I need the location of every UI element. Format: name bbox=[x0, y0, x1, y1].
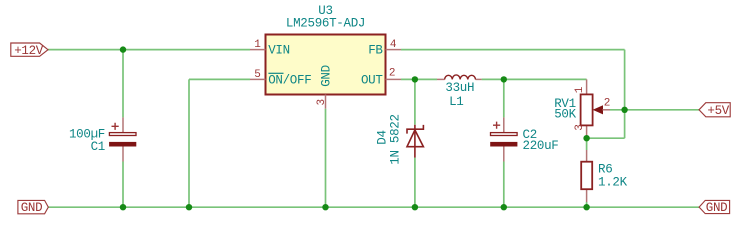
power flag GND left bbox=[18, 200, 48, 215]
svg-text:1: 1 bbox=[574, 86, 586, 93]
wire ON/OFF down to GND rail bbox=[188, 79, 190, 207]
wire GND rail bbox=[48, 206, 699, 208]
power flag +5V bbox=[699, 103, 730, 118]
wire R6 top bbox=[586, 138, 588, 150]
svg-text:5: 5 bbox=[254, 69, 261, 81]
svg-text:ON/OFF: ON/OFF bbox=[268, 73, 311, 87]
junction node D4/rail bbox=[412, 204, 418, 210]
U3 pin 1 VIN bbox=[250, 39, 290, 57]
U3 pin 4 FB bbox=[368, 39, 401, 57]
junction node C2/rail bbox=[501, 204, 507, 210]
capacitor C2 bbox=[490, 117, 558, 161]
wire FB horizontal bbox=[401, 49, 625, 51]
svg-text:2: 2 bbox=[389, 67, 396, 79]
capacitor C1 bbox=[69, 117, 136, 161]
svg-text:D4: D4 bbox=[376, 130, 390, 144]
junction node R6/rail bbox=[583, 204, 589, 210]
wire ON/OFF horizontal bbox=[189, 78, 250, 80]
svg-text:LM2596T-ADJ: LM2596T-ADJ bbox=[286, 17, 365, 31]
svg-text:+5V: +5V bbox=[707, 104, 729, 118]
svg-text:3: 3 bbox=[316, 99, 328, 106]
op-amp U3 LM2596T-ADJ body bbox=[266, 4, 386, 95]
power flag GND right bbox=[699, 200, 730, 215]
svg-text:33uH: 33uH bbox=[445, 81, 474, 95]
wire U3 GND pin to rail bbox=[325, 109, 327, 208]
svg-text:220uF: 220uF bbox=[523, 139, 559, 153]
svg-text:+12V: +12V bbox=[14, 44, 44, 58]
svg-text:C1: C1 bbox=[91, 140, 105, 154]
power flag +12V bbox=[11, 43, 48, 58]
wire C1 top branch bbox=[122, 50, 124, 118]
wire loop bottom to RV1 pin3 bbox=[587, 137, 625, 139]
wire C2 top bbox=[503, 79, 505, 117]
svg-text:L1: L1 bbox=[449, 95, 463, 109]
U3 pin 5 ON/OFF bbox=[250, 69, 311, 87]
svg-text:3: 3 bbox=[574, 124, 586, 131]
U3 pin 2 OUT bbox=[361, 67, 401, 87]
svg-text:2: 2 bbox=[604, 98, 611, 110]
junction node OUT/D4 bbox=[412, 76, 418, 82]
diode D4 1N5822 bbox=[376, 114, 424, 164]
inductor L1 bbox=[437, 75, 482, 109]
wire D4 top bbox=[414, 79, 416, 124]
svg-text:GND: GND bbox=[21, 201, 43, 215]
wire L1 to RV1 corner bbox=[482, 78, 587, 80]
svg-text:OUT: OUT bbox=[361, 73, 383, 87]
svg-text:FB: FB bbox=[368, 44, 383, 58]
wire C2 bottom to rail bbox=[503, 162, 505, 208]
wire +12V to U3 VIN bbox=[48, 49, 250, 51]
U3 pin 3 GND bbox=[316, 65, 334, 109]
svg-text:1: 1 bbox=[254, 39, 261, 51]
junction node +12V/C1 bbox=[120, 46, 126, 52]
resistor R6 bbox=[581, 150, 627, 202]
wire D4 bottom to rail bbox=[414, 158, 416, 208]
wire OUT to L1 bbox=[401, 78, 437, 80]
svg-text:VIN: VIN bbox=[268, 44, 290, 58]
junction node wiper/+5V bbox=[621, 107, 627, 113]
wire R6 bottom bbox=[586, 202, 588, 207]
potentiometer RV1 bbox=[554, 79, 610, 138]
svg-text:1.2K: 1.2K bbox=[598, 175, 628, 189]
junction node U3GND/rail bbox=[322, 204, 328, 210]
wire C1 bottom to GND rail bbox=[122, 162, 124, 208]
svg-text:GND: GND bbox=[320, 65, 334, 87]
junction node C1/rail bbox=[120, 204, 126, 210]
svg-text:GND: GND bbox=[706, 201, 728, 215]
wire FB down right loop bbox=[624, 50, 626, 139]
wire RV1 wiper to +5V bbox=[610, 109, 699, 111]
svg-text:4: 4 bbox=[390, 39, 397, 51]
svg-text:1N 5822: 1N 5822 bbox=[389, 114, 403, 164]
junction node RV1pin3/R6 bbox=[583, 135, 589, 141]
svg-text:50K: 50K bbox=[554, 108, 576, 122]
junction node L1/C2 bbox=[501, 76, 507, 82]
junction node ON-OFF/rail bbox=[186, 204, 192, 210]
